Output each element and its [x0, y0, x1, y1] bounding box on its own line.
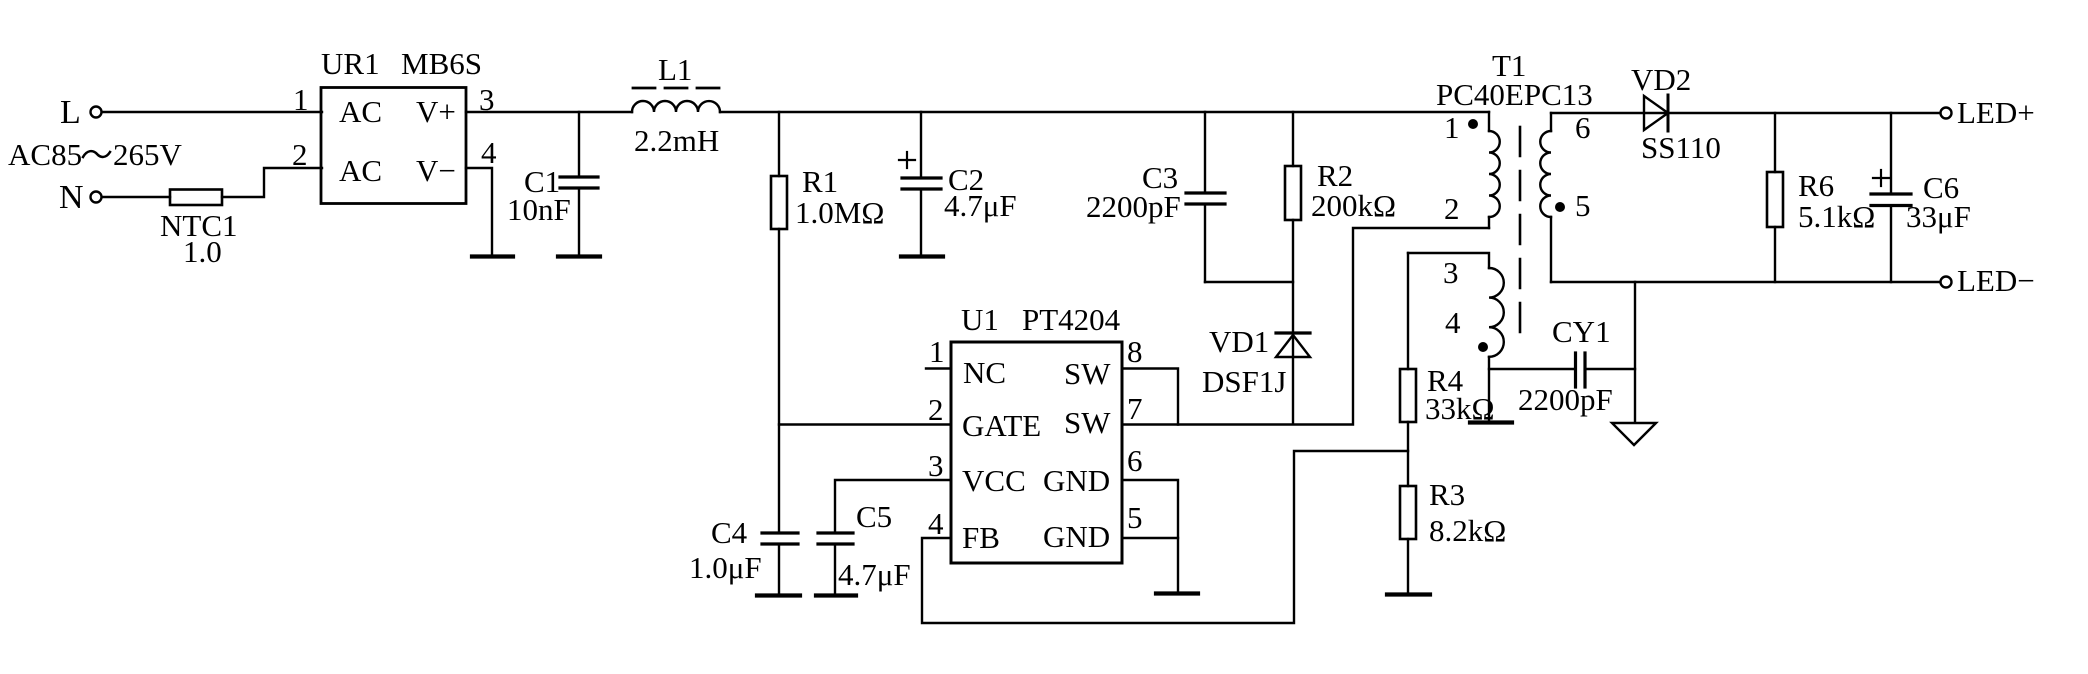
- wire L1 to T1 pin1 (main rail): [720, 111, 1489, 113]
- svg-text:6: 6: [1127, 443, 1143, 478]
- svg-text:1.0: 1.0: [183, 234, 222, 269]
- svg-text:R6: R6: [1798, 168, 1834, 203]
- wire secondary bottom rail: [1551, 281, 1940, 283]
- svg-text:V+: V+: [416, 94, 456, 129]
- polarity dot pin5: [1555, 202, 1565, 212]
- svg-text:2: 2: [292, 137, 308, 172]
- pin 7 SW: [1064, 391, 1143, 440]
- svg-text:SS110: SS110: [1641, 130, 1721, 165]
- ground (T1 pin4): [1470, 420, 1512, 424]
- svg-text:AC85: AC85: [8, 137, 82, 172]
- ground (C2): [901, 254, 943, 258]
- svg-text:PT4204: PT4204: [1022, 302, 1121, 337]
- svg-text:VD1: VD1: [1209, 324, 1269, 359]
- wire L to UR1 pin1: [102, 111, 322, 113]
- svg-text:C4: C4: [711, 515, 748, 550]
- svg-text:5: 5: [1575, 188, 1591, 223]
- svg-text:4: 4: [928, 506, 944, 541]
- pin 4 FB: [928, 506, 1000, 555]
- svg-text:2.2mH: 2.2mH: [634, 123, 719, 158]
- capacitor C4: [689, 515, 798, 593]
- svg-text:33μF: 33μF: [1906, 199, 1971, 234]
- svg-text:LED+: LED+: [1957, 95, 2035, 130]
- svg-text:33kΩ: 33kΩ: [1425, 391, 1495, 426]
- svg-text:265V: 265V: [113, 137, 183, 172]
- svg-text:VCC: VCC: [962, 463, 1026, 498]
- svg-text:L1: L1: [658, 52, 692, 87]
- transformer T1 primary winding: [1444, 110, 1500, 228]
- chassis ground (CY1): [1612, 423, 1656, 445]
- svg-text:MB6S: MB6S: [401, 46, 482, 81]
- svg-text:GND: GND: [1043, 519, 1110, 554]
- svg-text:L: L: [60, 94, 81, 131]
- bridge rectifier UR1: [292, 46, 497, 204]
- svg-text:C5: C5: [856, 499, 892, 534]
- svg-text:4.7μF: 4.7μF: [944, 188, 1017, 223]
- pin 2 GATE: [928, 392, 1041, 443]
- svg-text:2: 2: [1444, 191, 1460, 226]
- ground (C5): [816, 593, 856, 597]
- wire UR1 pin3 to L1: [466, 111, 632, 113]
- capacitor C6: [1871, 113, 1971, 282]
- svg-text:1.0MΩ: 1.0MΩ: [795, 195, 884, 230]
- svg-text:GATE: GATE: [962, 408, 1041, 443]
- pin 1 NC stub: [926, 334, 1006, 390]
- node LED+ terminal: [1941, 95, 2035, 130]
- wire N to NTC1: [102, 196, 170, 198]
- wire NTC1 to UR1 pin2: [222, 168, 322, 197]
- ground (R3): [1387, 592, 1430, 596]
- svg-text:SW: SW: [1064, 405, 1111, 440]
- svg-text:SW: SW: [1064, 356, 1111, 391]
- svg-text:AC: AC: [339, 94, 382, 129]
- resistor NTC1: [160, 190, 238, 270]
- wire C3 bottom to R2/VD1 node: [1205, 281, 1293, 283]
- pin 5 GND: [1043, 500, 1143, 554]
- wire SW7 to T1 pin2: [1122, 228, 1489, 425]
- node L terminal: [60, 94, 102, 131]
- wire CY1 to LED- rail: [1634, 282, 1636, 422]
- pin 3 VCC: [928, 448, 1026, 498]
- wire GATE to R1 node: [779, 423, 951, 425]
- wire VCC to C5: [835, 480, 951, 531]
- svg-text:2: 2: [928, 392, 944, 427]
- svg-text:DSF1J: DSF1J: [1202, 364, 1286, 399]
- svg-text:GND: GND: [1043, 463, 1110, 498]
- svg-text:LED−: LED−: [1957, 263, 2035, 298]
- node N terminal: [59, 179, 102, 216]
- pin 8 SW: [1064, 334, 1143, 391]
- wire GND to ground: [1122, 480, 1178, 591]
- svg-text:1.0μF: 1.0μF: [689, 550, 762, 585]
- diode VD2 SS110: [1631, 62, 1721, 165]
- wire secondary top to VD2: [1551, 112, 1940, 114]
- transformer T1 secondary winding: [1540, 110, 1590, 282]
- svg-text:PC40EPC13: PC40EPC13: [1436, 77, 1593, 112]
- ground (U1 GND): [1156, 591, 1198, 595]
- ground (UR1 pin4): [472, 254, 513, 258]
- wire SW8 to SW7: [1122, 369, 1178, 425]
- svg-text:UR1: UR1: [321, 46, 380, 81]
- transformer T1 aux winding: [1408, 253, 1504, 420]
- svg-text:4: 4: [1445, 305, 1461, 340]
- capacitor CY1: [1489, 314, 1635, 417]
- svg-text:2200pF: 2200pF: [1518, 382, 1613, 417]
- svg-text:200kΩ: 200kΩ: [1311, 188, 1396, 223]
- wire UR1 pin4 down: [466, 168, 492, 254]
- resistor R6: [1767, 113, 1875, 282]
- svg-text:R1: R1: [802, 164, 838, 199]
- svg-text:7: 7: [1127, 391, 1143, 426]
- svg-text:3: 3: [1443, 255, 1459, 290]
- svg-text:1: 1: [1444, 110, 1460, 145]
- capacitor C2: [899, 112, 1017, 254]
- capacitor C1: [507, 112, 598, 254]
- resistor R4: [1400, 253, 1495, 486]
- capacitor C3: [1086, 112, 1225, 282]
- resistor R3: [1400, 477, 1506, 592]
- svg-text:U1: U1: [961, 302, 999, 337]
- svg-text:V−: V−: [416, 153, 456, 188]
- node LED- terminal: [1941, 263, 2035, 298]
- svg-text:AC: AC: [339, 153, 382, 188]
- ground (C4): [757, 593, 800, 597]
- inductor L1: [632, 52, 720, 158]
- svg-text:5: 5: [1127, 500, 1143, 535]
- resistor R1: [771, 112, 884, 531]
- diode VD1: [1202, 324, 1310, 424]
- svg-text:N: N: [59, 179, 84, 216]
- resistor R2: [1285, 112, 1396, 333]
- svg-text:8: 8: [1127, 334, 1143, 369]
- svg-text:4: 4: [481, 135, 497, 170]
- svg-text:6: 6: [1575, 110, 1591, 145]
- svg-text:VD2: VD2: [1631, 62, 1691, 97]
- pin 6 GND: [1043, 443, 1143, 498]
- capacitor C5: [818, 499, 911, 593]
- svg-text:1: 1: [929, 334, 945, 369]
- svg-text:R3: R3: [1429, 477, 1465, 512]
- wire GND5: [1122, 537, 1178, 539]
- svg-text:10nF: 10nF: [507, 192, 571, 227]
- svg-text:CY1: CY1: [1552, 314, 1611, 349]
- IC U1 PT4204: [951, 302, 1122, 563]
- svg-text:NC: NC: [963, 355, 1006, 390]
- wire FB to R4/R3 node: [922, 451, 1408, 623]
- transformer T1 labels: [1436, 48, 1593, 112]
- transformer core: [1519, 127, 1522, 332]
- ground (C1): [558, 254, 600, 258]
- svg-text:FB: FB: [962, 520, 1000, 555]
- svg-text:8.2kΩ: 8.2kΩ: [1429, 513, 1506, 548]
- svg-text:2200pF: 2200pF: [1086, 189, 1181, 224]
- svg-text:3: 3: [928, 448, 944, 483]
- polarity dot pin1: [1468, 119, 1478, 129]
- svg-text:4.7μF: 4.7μF: [838, 557, 911, 592]
- svg-text:5.1kΩ: 5.1kΩ: [1798, 199, 1875, 234]
- svg-text:1: 1: [293, 82, 309, 117]
- polarity dot pin4: [1478, 342, 1488, 352]
